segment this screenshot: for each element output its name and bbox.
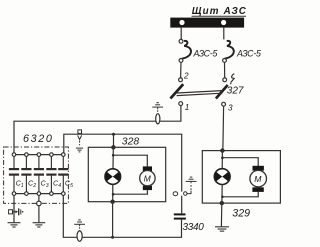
svg-text:М: М bbox=[254, 174, 262, 184]
capacitor C2 bbox=[25, 153, 29, 157]
grommet on ground bus at x79 bbox=[77, 231, 82, 241]
earth ground below 329 bbox=[215, 227, 229, 231]
capacitor bank bottom bus bbox=[14, 193, 63, 195]
wire lamp bottom to ball 328 bbox=[112, 184, 114, 202]
switch 327 contact 3 bbox=[222, 102, 226, 106]
terminal ball top 329 bbox=[220, 148, 224, 152]
lamp 328 bbox=[105, 169, 121, 185]
dashed enclosure 6320 bbox=[4, 147, 69, 203]
svg-text:АЗС-5: АЗС-5 bbox=[236, 49, 261, 59]
earth ground bottom-left bbox=[8, 223, 21, 227]
capacitor C4 bbox=[50, 153, 54, 157]
earth ground below 6320 bbox=[33, 223, 46, 227]
pin label 2 bbox=[183, 72, 189, 81]
wire breaker 2 to switch contact 4 bbox=[224, 62, 226, 78]
label 328 bbox=[122, 137, 140, 148]
breaker U1 АЗС-5 bottom terminal bbox=[179, 59, 183, 63]
chassis ground (inverted) above feed-through bbox=[186, 177, 197, 183]
junction circle on 6320 bottom edge bbox=[38, 195, 40, 201]
switch 327 mechanical link bbox=[177, 91, 223, 93]
motor M 329 bbox=[250, 166, 267, 192]
label АЗС-5 (right) bbox=[236, 49, 261, 59]
junction dot motor branch top 328 bbox=[112, 154, 115, 157]
label 6320 bbox=[23, 133, 53, 145]
earth ground below connector bbox=[76, 148, 83, 152]
svg-text:327: 327 bbox=[227, 86, 244, 97]
grommet on wire at x158 bbox=[156, 114, 160, 124]
lamp 329 bbox=[214, 169, 230, 185]
capacitor C5 bbox=[62, 153, 66, 157]
svg-text:АЗС-5: АЗС-5 bbox=[193, 49, 218, 59]
wire contact 3 down to unit 329 bbox=[222, 106, 225, 148]
label 327 bbox=[227, 86, 244, 97]
breaker U1 АЗС-5 top terminal bbox=[179, 39, 183, 43]
capacitor C3 bbox=[37, 153, 41, 157]
wire 329 to earth bbox=[220, 203, 222, 226]
terminal ball top 328 bbox=[111, 145, 115, 149]
capacitor C1 bbox=[12, 153, 16, 157]
breaker U1 АЗС-5 body bbox=[182, 41, 191, 59]
junction dot motor branch bottom 329 bbox=[221, 196, 224, 199]
switch 327 contact 1 bbox=[179, 102, 183, 106]
wire busbar to breaker 1 bbox=[180, 28, 182, 40]
junction dot motor branch top 329 bbox=[221, 156, 224, 159]
terminal ball bottom 328 bbox=[110, 200, 114, 204]
motor M 328 bbox=[140, 166, 155, 190]
node B: wire from cap bank C5 east to down-feed bbox=[64, 134, 182, 191]
wire junction to unit 328 bbox=[113, 134, 115, 146]
wire top ball to lamp bbox=[112, 147, 114, 169]
wire breaker 1 to switch contact 2 bbox=[180, 62, 182, 78]
capacitor bank top bus bbox=[14, 154, 63, 156]
wire motor bottom 328 bbox=[113, 190, 147, 194]
svg-text:6320: 6320 bbox=[23, 133, 53, 145]
plug-socket symbol on left ground wire bbox=[9, 208, 24, 215]
switch 327 contact 2 bbox=[179, 78, 183, 82]
wire motor bottom 329 bbox=[222, 192, 258, 197]
wire contact 1 down and west to node A bbox=[14, 106, 181, 153]
unit 328 enclosure bbox=[88, 147, 165, 201]
wire to motor top 329 bbox=[222, 158, 258, 166]
wire busbar to breaker 2 bbox=[223, 28, 225, 40]
terminal on busbar right bbox=[221, 20, 226, 25]
switch 327 blade right bbox=[216, 85, 228, 99]
terminal ball bottom 329 bbox=[220, 201, 224, 205]
switch 327 blade left bbox=[170, 84, 183, 98]
capacitor 3340 bbox=[174, 213, 186, 215]
label АЗС-5 (left) bbox=[193, 49, 218, 59]
breaker U2 АЗС-5 bottom terminal bbox=[223, 59, 227, 63]
pin label 3 bbox=[228, 104, 233, 113]
junction dot ground bus / unit 328 bbox=[111, 236, 114, 239]
svg-text:3340: 3340 bbox=[183, 222, 205, 233]
svg-text:М: М bbox=[144, 173, 152, 183]
unit 329 enclosure bbox=[202, 151, 280, 204]
wire lamp bottom to ball 329 bbox=[221, 184, 223, 203]
terminal on busbar left bbox=[179, 20, 184, 25]
connector/pin symbol on node B wire at x79 bbox=[78, 130, 82, 145]
busbar Щит АЗС panel bbox=[170, 18, 244, 28]
wire C5 bottom to ground bus bbox=[63, 195, 181, 237]
pin label 1 bbox=[185, 103, 190, 112]
svg-text:1: 1 bbox=[185, 103, 190, 112]
svg-text:3: 3 bbox=[228, 104, 233, 113]
feed-through shield on 3340 wire bbox=[173, 184, 191, 196]
switch 327 contact upper right bbox=[223, 78, 227, 82]
label Щит АЗС bbox=[192, 6, 247, 17]
wire 328 down to ground bus bbox=[112, 202, 114, 238]
wire 329 top from contact 3 bbox=[221, 149, 224, 151]
chassis ground (inverted) above grommet bbox=[152, 103, 163, 113]
breaker U2 АЗС-5 body bbox=[225, 41, 234, 59]
svg-text:329: 329 bbox=[232, 208, 250, 220]
chassis ground (inverted) above grommet bbox=[74, 220, 85, 231]
wire bottom bus left down bbox=[13, 195, 15, 222]
wire to motor top 328 bbox=[113, 155, 147, 166]
label 329 bbox=[232, 208, 250, 220]
wire top ball to lamp 329 bbox=[221, 151, 223, 169]
capacitor bank columns C1-C5 bbox=[9, 153, 73, 196]
svg-text:328: 328 bbox=[122, 137, 140, 148]
label 3340 bbox=[183, 222, 205, 233]
actuator arrow for 327 bbox=[231, 74, 235, 83]
svg-text:2: 2 bbox=[183, 72, 189, 81]
svg-text:Щит АЗС: Щит АЗС bbox=[192, 6, 247, 17]
junction dot motor branch bottom 328 bbox=[112, 193, 115, 196]
junction dot feeding unit 328 bbox=[112, 133, 115, 136]
wire into capacitor 3340 bbox=[181, 196, 183, 214]
